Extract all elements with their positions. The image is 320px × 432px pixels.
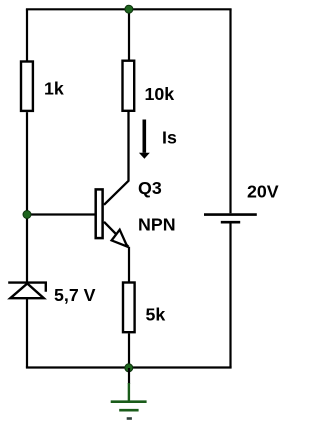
current arrow Is — [143, 120, 147, 153]
wire bottom rail — [27, 366, 231, 368]
wire collector lead — [104, 112, 129, 205]
svg-text:NPN: NPN — [138, 215, 176, 235]
zener diode 5,7V triangle — [10, 284, 44, 299]
wire top rail — [27, 8, 231, 10]
wire left rail lower — [26, 299, 28, 368]
wire left rail upper — [26, 9, 28, 60]
wire left rail middle — [26, 112, 28, 283]
wire 10k top lead — [128, 9, 130, 60]
transistor Q3 base bar — [96, 189, 103, 238]
svg-text:1k: 1k — [44, 79, 64, 99]
resistor 10k body — [123, 61, 135, 111]
svg-text:20V: 20V — [247, 182, 279, 202]
svg-text:Is: Is — [162, 128, 177, 148]
node dot bottom junction — [125, 364, 133, 372]
node dot top junction — [125, 5, 133, 13]
battery 20V short plate — [221, 221, 240, 224]
ground bar 2 — [119, 409, 138, 412]
svg-text:5k: 5k — [146, 305, 166, 325]
node dot left junction — [23, 211, 31, 219]
transistor Q3 emitter arrowhead — [112, 230, 128, 247]
resistor 1k body — [21, 62, 33, 111]
svg-text:10k: 10k — [145, 84, 175, 104]
ground bar 3 — [127, 417, 132, 420]
ground bar 1 — [111, 400, 147, 403]
wire 5k bottom lead — [128, 333, 130, 367]
wire right rail upper — [229, 9, 231, 213]
resistor 5k body — [123, 283, 135, 333]
transistor Q3 emitter diagonal — [104, 222, 129, 247]
zener diode 5,7V cathode bar — [8, 283, 46, 292]
wire emitter lead — [128, 247, 130, 282]
wire base lead — [27, 213, 95, 215]
wire right rail lower — [229, 223, 231, 367]
svg-text:5,7 V: 5,7 V — [54, 285, 96, 305]
wire ground stub — [128, 368, 130, 384]
ground stem — [128, 383, 130, 401]
svg-text:Q3: Q3 — [138, 178, 162, 198]
battery 20V long plate — [204, 213, 257, 216]
